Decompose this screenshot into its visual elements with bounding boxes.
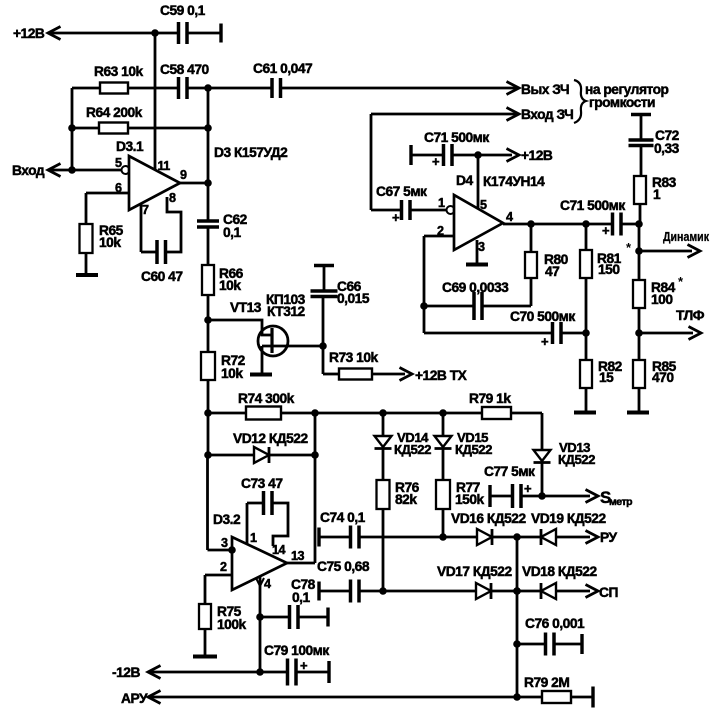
wire R85 to ground [638,388,641,411]
wire input to op-amp pin 5 [48,169,121,172]
node S-meter arrow [586,490,599,503]
svg-text:D4: D4 [456,173,473,188]
svg-text:К174УН14: К174УН14 [483,174,545,189]
capacitor C58 470 [177,77,181,99]
svg-text:КД522: КД522 [394,442,431,457]
wire speaker node [638,224,641,251]
diode VD16 KD522 [477,529,492,545]
wire VD16 to VD19 [492,536,541,539]
capacitor C76 0,001 [517,643,545,646]
svg-text:100: 100 [651,292,673,307]
resistor R72 10k [201,352,215,380]
wire C59 to terminal [187,32,221,35]
wire C69 to R80 [482,305,531,308]
wire pin 9 output [180,182,208,185]
wire drain node to R73 [322,346,325,374]
svg-text:0,1: 0,1 [223,225,242,240]
svg-text:С58 470: С58 470 [160,62,209,77]
svg-text:С74 0,1: С74 0,1 [320,510,366,525]
svg-text:0,1: 0,1 [292,590,311,605]
wire output rail x=316 [314,413,317,563]
wire VD12 to output rail [269,454,315,457]
wire C75 to VD17 [359,590,476,593]
svg-text:Вход ЗЧ: Вход ЗЧ [521,107,573,122]
diode VD15 KD522 [435,436,452,447]
resistor R79 2M [542,691,571,703]
svg-text:1: 1 [250,531,257,545]
wire TLF node to R85 [638,333,641,360]
wire C73 to pin 14 [272,503,288,546]
svg-text:D3.2: D3.2 [213,512,241,527]
resistor R74 300k [246,407,281,420]
wire R65 to ground [85,253,88,274]
svg-text:10k: 10k [99,235,121,250]
resistor R81 150 [585,224,588,250]
svg-text:+12В ТХ: +12В ТХ [415,368,468,383]
svg-text:5: 5 [480,198,487,212]
wire C62 to R66 [207,227,210,265]
svg-text:10k: 10k [219,278,241,293]
resistor R76 82k [377,480,390,509]
wire R72 to R74 node [207,380,210,413]
wire C74 to VD16 [359,536,477,539]
wire C58 to C61 junction [187,87,272,90]
diode VD13 KD522 [534,450,551,461]
wire C61 to output tap [281,87,520,90]
svg-text:С70 500мк: С70 500мк [510,309,575,324]
capacitor C74 0,1 [317,528,320,547]
svg-text:D3.1: D3.1 [116,139,144,154]
svg-text:470: 470 [652,370,674,385]
wire R82 to ground [585,388,588,411]
capacitor C70 500mk [551,322,555,344]
svg-text:VD18 КД522: VD18 КД522 [522,564,597,579]
wire output rail to C62 [207,183,210,221]
wire pin 2 [205,574,232,577]
wire pin 4 down [259,576,262,672]
wire C79 to terminal [296,671,329,674]
resistor R64 200k [99,123,128,134]
ground VT13 [250,373,272,377]
svg-text:2: 2 [220,560,227,574]
wire VT13 source to ground [261,346,264,373]
wire C71 to speaker rail [621,223,639,226]
svg-text:С61 0,047: С61 0,047 [253,61,313,76]
svg-text:С76 0,001: С76 0,001 [525,616,585,631]
node Vhod ZCh arrow [507,108,520,121]
wire pin 3 ground [476,240,479,263]
wire C60 to pin 8 [166,197,181,252]
capacitor C66 0,015 [311,289,338,293]
wire to C67 [371,209,401,212]
wire left feedback rail [71,88,74,170]
svg-text:С73 47: С73 47 [241,476,283,491]
transistor VT13 KP103 KT312 [258,326,288,356]
capacitor C67 5mk [400,200,404,220]
wire pin 7 to C60 [140,203,143,252]
capacitor C77 5mk [488,485,491,507]
svg-text:С67 5мк: С67 5мк [376,184,427,199]
svg-text:D3 К157УД2: D3 К157УД2 [214,145,288,160]
op-amp D3.2 [232,537,287,590]
svg-text:Динамик: Динамик [663,230,710,244]
svg-text:АРУ: АРУ [121,691,148,706]
svg-text:Вход: Вход [12,163,45,178]
svg-text:громкости: громкости [589,95,655,110]
svg-text:С59 0,1: С59 0,1 [160,3,206,18]
wire detector rail x=517 [516,537,519,697]
svg-text:150k: 150k [455,492,485,507]
svg-text:8: 8 [169,191,176,205]
svg-text:VD12 КД522: VD12 КД522 [233,431,308,446]
capacitor C79 100mk [286,659,290,686]
ground R82 [574,411,596,415]
capacitor C66 0,015 terminal [314,264,334,267]
svg-text:КД522: КД522 [455,442,492,457]
wire center rail to VD12 [207,413,210,455]
capacitor C69 0,0033 [424,305,474,308]
svg-text:+: + [432,154,440,169]
wire R83 to output node [639,204,642,224]
wire C76 to terminal [554,643,582,646]
wire C66 to drain node [322,297,325,346]
svg-text:0,015: 0,015 [337,291,370,306]
svg-text:СП: СП [599,585,618,600]
svg-text:VD17 КД522: VD17 КД522 [437,564,512,579]
wire VD13 to S-meter line [541,463,544,496]
node SP arrow [586,585,599,598]
svg-text:R74 300k: R74 300k [238,391,295,406]
svg-text:7: 7 [142,203,149,217]
wire pin 1 to C73 [246,503,249,544]
svg-text:КД522: КД522 [558,452,595,467]
diode VD14 KD522 [375,436,392,447]
svg-text:R79 2М: R79 2М [524,675,569,690]
svg-text:R73 10k: R73 10k [329,350,378,365]
wire pin11 supply drop [154,33,157,170]
svg-text:+: + [602,223,610,238]
svg-text:С69 0,0033: С69 0,0033 [442,280,509,295]
capacitor C62 0,1 [197,219,219,223]
svg-text:47: 47 [545,264,560,279]
svg-text:+: + [541,334,549,349]
svg-text:R64 200k: R64 200k [86,105,143,120]
wire R77 to RU line [442,509,445,537]
svg-text:РУ: РУ [600,530,618,545]
diode VD18 KD522 [541,583,556,599]
wire VD17 to VD18 [491,590,541,593]
svg-text:+: + [524,481,532,496]
svg-text:4: 4 [264,577,271,591]
wire C71 to +12V arrow [452,154,512,157]
wire C72 to R83 [640,146,643,176]
svg-text:С77 5мк: С77 5мк [484,464,535,479]
wire Vhod ZCh [371,113,519,116]
wire C70 to R81 node [561,332,586,335]
resistor R85 470 [633,360,645,388]
svg-text:5: 5 [115,156,122,170]
wire pin 5 supply [477,155,480,208]
pin 5 inverting circle [122,166,130,174]
resistor R79 1k [482,407,511,419]
capacitor C73 47 [262,491,266,515]
wire +12V rail [48,32,178,35]
svg-text:КТ312: КТ312 [267,304,306,319]
svg-text:Вых ЗЧ: Вых ЗЧ [521,82,569,97]
svg-text:+: + [392,210,400,225]
wire pin 2 feedback [424,235,454,238]
wire R84 to TLF node [638,308,641,333]
svg-text:3: 3 [221,536,228,550]
resistor R75 100k [199,604,211,629]
wire R76 to SP line [382,509,385,591]
capacitor C75 0,68 [317,582,320,601]
wire VD18 to SP arrow [556,590,590,593]
wire R81 to C70 node [585,278,588,333]
wire to R84 [638,251,641,280]
resistor R83 1 [634,176,646,204]
capacitor C71 500mk upper [409,145,412,165]
diode VD19 KD522 [541,529,556,545]
wire R64 right [128,127,208,130]
svg-text:+12В: +12В [13,26,45,41]
svg-text:VT13: VT13 [230,300,262,315]
node +12V D4 arrow [507,149,520,162]
wire D4 output [503,223,612,226]
svg-text:метр: метр [609,496,632,508]
svg-text:3: 3 [478,240,485,254]
node output to volume control Vykh ZCh [507,82,520,95]
wire R66 to gate node [207,295,210,320]
wire R74 to R79 [281,412,482,415]
wire C78 to terminal [298,616,328,619]
svg-text:0,33: 0,33 [654,141,680,156]
ground D4 pin 3 [466,263,488,267]
wire VD14 to R76 [382,449,385,480]
svg-text:10k: 10k [221,366,243,381]
wire R80 top [530,224,533,252]
svg-text:13: 13 [291,549,305,563]
wire C77 to S-meter arrow [521,495,590,498]
svg-text:15: 15 [599,370,614,385]
node speaker arrow Dinamik [639,250,692,253]
svg-text:-12В: -12В [112,665,140,680]
capacitor C71 500mk right [611,213,615,236]
wire VD15 to R77 [442,449,445,480]
wire gate of VT13 [208,320,271,335]
diode VD17 KD522 [476,583,491,599]
capacitor C72 0,33 [629,138,654,142]
resistor R84 100 [633,280,645,308]
svg-text:1: 1 [438,196,445,210]
svg-text:С71 500мк: С71 500мк [560,198,625,213]
svg-text:9: 9 [180,168,187,182]
svg-text:VD16 КД522: VD16 КД522 [451,511,526,526]
wire center rail to pin 3 [206,455,209,550]
wire -12V rail [148,671,287,674]
wire R64 row left [72,127,99,130]
wire R63 row left [72,87,100,90]
svg-text:+12В: +12В [521,148,553,163]
svg-text:VD19 КД522: VD19 КД522 [531,511,606,526]
wire VD15 top [442,413,445,436]
node RU arrow [586,531,599,544]
capacitor C61 0,047 [270,78,274,98]
ground R75 [193,655,217,659]
capacitor C60 47 [155,240,159,264]
wire VD14 top [382,413,385,436]
wire center rail upper [207,88,210,183]
svg-text:С60 47: С60 47 [141,269,183,284]
svg-text:100k: 100k [217,617,247,632]
svg-text:82k: 82k [395,492,417,507]
wire op-amp output pin 13 [287,562,315,565]
op-amp D4 K174UN14 [454,195,503,250]
svg-text:С79 100мк: С79 100мк [264,643,329,658]
wire R73 to +12V TX [372,373,405,376]
wire C67 to pin 1 [410,209,446,212]
svg-text:R63 10k: R63 10k [94,64,143,79]
node TLF arrow [639,332,693,335]
wire R74 row left [208,412,246,415]
svg-text:1: 1 [653,187,661,202]
resistor R77 150k [436,480,450,509]
svg-text:С71 500мк: С71 500мк [424,130,489,145]
resistor R66 10k [202,265,214,295]
resistor R82 15 [585,333,588,360]
resistor R80 47 [525,252,537,278]
brace to volume control [574,80,586,123]
svg-text:R79 1k: R79 1k [469,391,511,406]
resistor R63 10k [100,83,128,94]
wire VT13 drain lead [262,345,323,348]
wire VD19 to RU arrow [556,536,590,539]
pin 1 inverting circle D4 [447,206,455,214]
capacitor C59 0,1 [177,22,181,44]
node +12V TX arrow [400,368,413,381]
svg-text:ТЛФ: ТЛФ [676,308,705,323]
op-amp D3.1 [129,156,180,210]
svg-text:11: 11 [158,159,171,173]
capacitor C72 0,33 terminal [631,113,651,116]
wire R79 2M to terminal [571,696,593,699]
diode VD12 KD522 [208,454,254,457]
wire R63 to C58 [128,87,178,90]
wire pin 6 [86,192,129,195]
wire feedback to C70 [424,332,552,335]
resistor R65 10k [80,224,93,253]
ground R85 [627,411,649,415]
capacitor C78 0,1 [260,616,289,619]
wire gate node to R72 [207,320,210,352]
wire ARU rail [148,696,542,699]
svg-text:150: 150 [598,262,620,277]
wire R79 to VD13 [511,412,542,415]
resistor R73 10k [339,369,372,380]
svg-text:С75 0,68: С75 0,68 [317,559,370,574]
ground R65 [76,273,98,277]
wire R75 to ground [204,629,207,655]
svg-text:4: 4 [506,210,513,224]
